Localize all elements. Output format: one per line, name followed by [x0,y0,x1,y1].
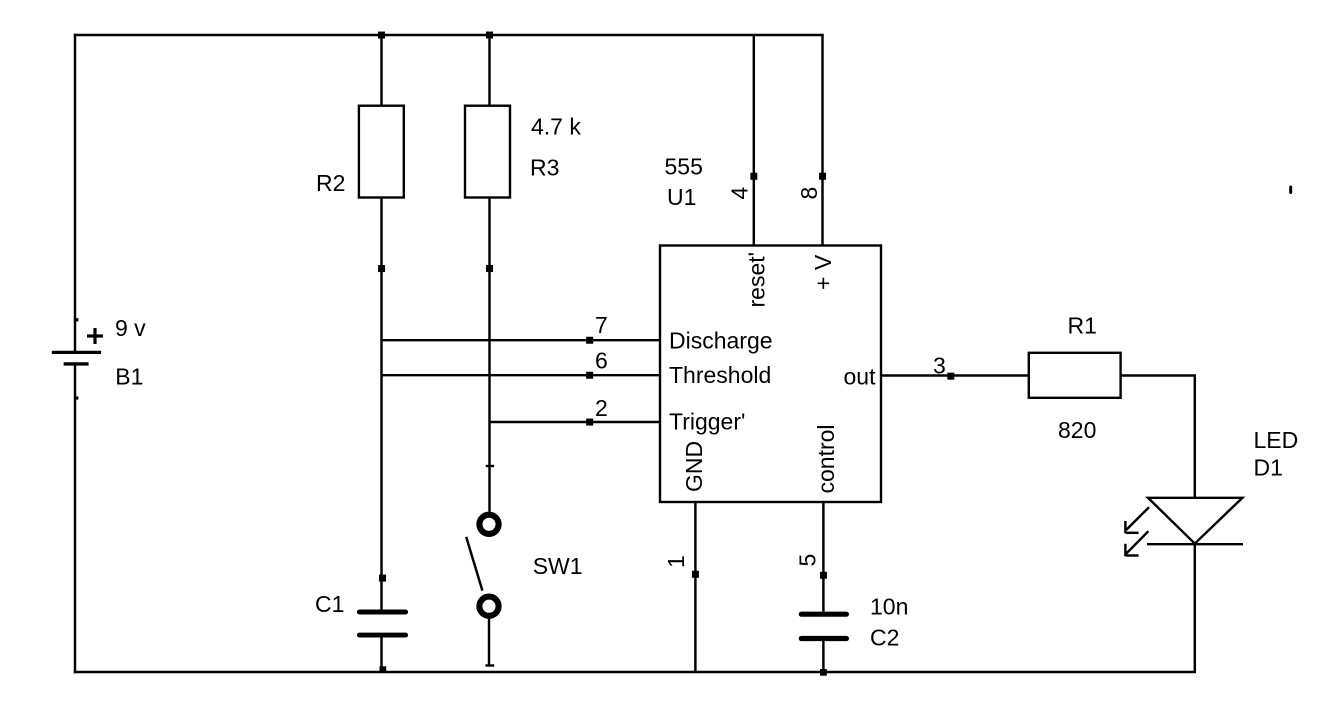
svg-text:9 v: 9 v [115,315,146,341]
wire left rail lower [74,364,76,672]
C2 bottom junction square [820,669,827,676]
pin1 square [692,571,699,578]
pin7 square [586,337,593,344]
junction top rail R3 [486,32,493,39]
svg-text:Discharge: Discharge [669,328,773,354]
pin2 square [586,419,593,426]
svg-text:5: 5 [795,554,821,567]
switch SW1 bottom contact [479,597,498,616]
svg-text:2: 2 [595,395,608,421]
wire gnd pin1 lead [694,502,696,672]
svg-text:GND: GND [681,441,707,492]
pin3 square [947,373,954,380]
svg-text:reset': reset' [744,252,770,308]
svg-text:555: 555 [665,154,703,180]
svg-text:4: 4 [727,187,753,200]
resistor R3 [465,106,510,198]
R3 bottom square [486,265,493,272]
wire pin4 lead [753,35,755,246]
switch terminal tick [486,465,494,467]
pin6 square [586,372,593,379]
svg-text:3: 3 [933,353,946,379]
svg-text:4.7 k: 4.7 k [531,114,581,140]
svg-text:control: control [813,424,839,493]
svg-text:7: 7 [595,312,608,338]
switch SW1 top contact [479,515,498,534]
battery terminal tick bottom [76,396,79,399]
wire pin8 lead [821,35,823,246]
svg-text:SW1: SW1 [533,553,583,579]
junction top rail R2 [378,32,385,39]
wire R2 top lead [380,35,382,106]
svg-text:R3: R3 [530,155,559,181]
svg-text:820: 820 [1058,417,1096,443]
svg-text:LED: LED [1254,427,1299,453]
LED D1 cathode bar [1147,543,1243,545]
pin4 square [750,173,757,180]
C1 top square [379,575,386,582]
svg-text:10n: 10n [870,594,908,620]
resistor R1 [1029,353,1121,398]
svg-text:R1: R1 [1068,313,1097,339]
wire R1 to LED corner [1121,376,1195,498]
svg-text:C2: C2 [870,625,899,651]
LED arrow 2 [1125,531,1148,556]
wire R3 top lead [488,35,490,106]
resistor R2 [359,106,404,198]
wire top rail [75,34,823,36]
op-amp U1 555 IC box [660,246,881,503]
wire control pin5 lead [822,502,824,612]
switch SW1 lever [466,537,482,591]
svg-text:D1: D1 [1254,455,1283,481]
capacitor C2 [801,614,846,638]
pin8 square [819,173,826,180]
battery plus sign [87,328,103,344]
wire trigger pin2 [490,421,661,423]
svg-text:C1: C1 [315,591,344,617]
wire R3 bottom to switch [488,198,490,512]
capacitor C1 [359,612,405,635]
R2 bottom square [378,265,385,272]
pin5 square [820,572,827,579]
wire threshold pin6 [382,374,661,376]
LED arrow 1 [1125,507,1149,533]
svg-text:Trigger': Trigger' [669,409,745,435]
wire LED bottom lead [1194,544,1196,672]
switch bottom terminal tick [485,664,494,666]
wire C2 bottom lead [822,641,824,672]
battery B1 [52,352,101,364]
battery terminal tick top [76,318,79,321]
wire left rail upper [74,35,76,352]
svg-text:+ V: + V [810,254,836,290]
wire discharge pin7 [382,339,661,341]
wire R2 bottom to C1 [380,198,382,610]
wire bottom rail [75,671,1195,673]
wire switch bottom lead [488,619,490,666]
stray apostrophe mark [1289,186,1292,195]
wire out pin3 [881,374,1029,376]
svg-text:U1: U1 [667,184,696,210]
C1 bottom junction square [380,666,387,673]
svg-text:R2: R2 [316,170,345,196]
svg-text:1: 1 [663,555,689,568]
wire C1 bottom lead [380,638,382,673]
svg-text:out: out [844,364,877,390]
svg-text:6: 6 [595,348,608,374]
svg-text:B1: B1 [115,364,143,390]
svg-text:Threshold: Threshold [669,362,771,388]
LED D1 triangle [1148,498,1242,544]
svg-text:8: 8 [796,187,822,200]
